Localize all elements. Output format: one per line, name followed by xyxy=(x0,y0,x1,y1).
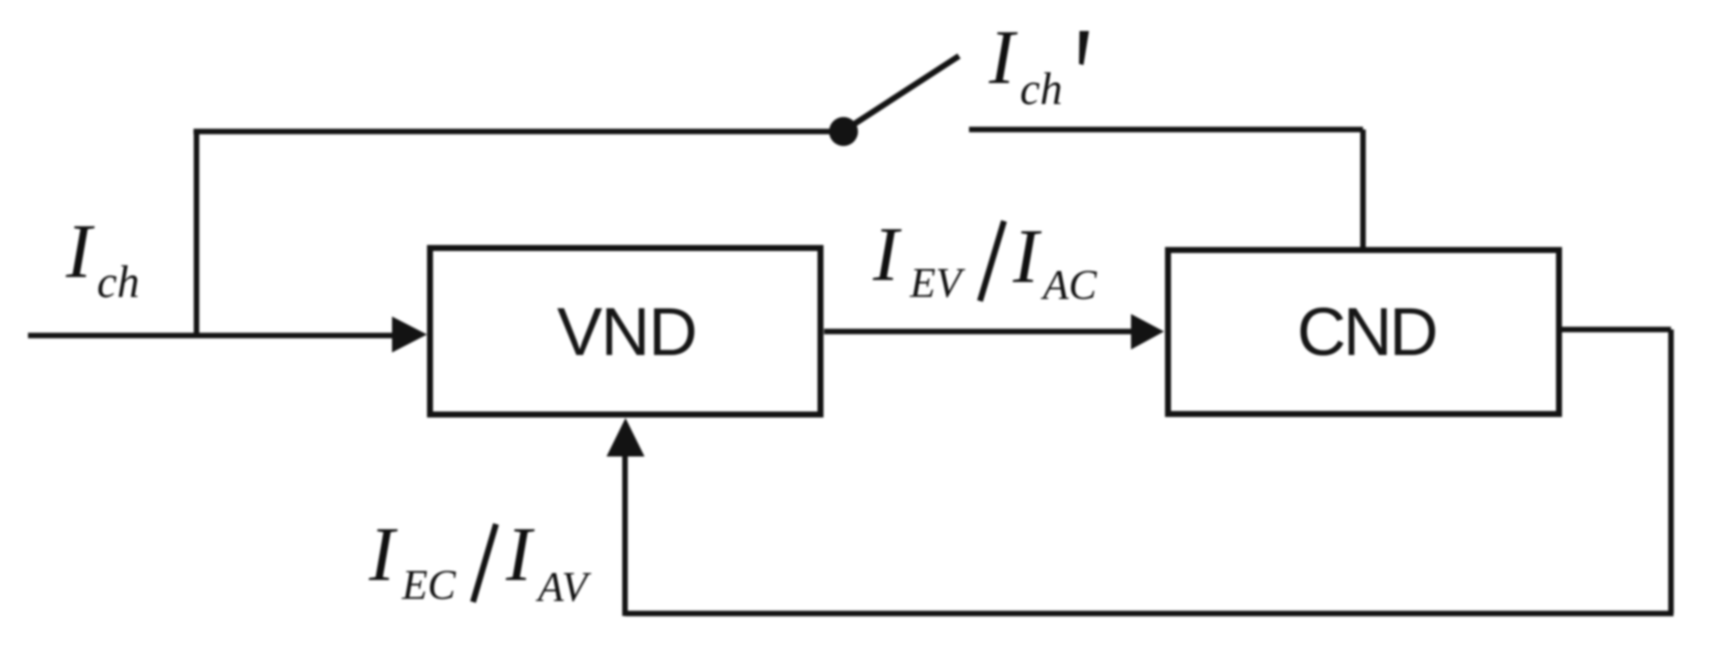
wire CND output right xyxy=(1562,327,1671,333)
arrowhead into VND left xyxy=(392,317,427,353)
svg-text:AC: AC xyxy=(1040,263,1098,309)
svg-text:EC: EC xyxy=(401,563,457,609)
svg-text:EV: EV xyxy=(909,261,966,307)
svg-text:ch: ch xyxy=(1020,64,1062,114)
block CND xyxy=(1168,250,1559,414)
wire right branch vertical into CND top xyxy=(1360,130,1366,249)
wire VND to CND xyxy=(824,329,1136,335)
arrowhead into VND bottom xyxy=(607,418,645,457)
wire feedback bottom horizontal xyxy=(625,611,1674,617)
svg-text:AV: AV xyxy=(535,565,592,611)
svg-text:I: I xyxy=(872,211,902,297)
switch pivot dot xyxy=(829,117,858,146)
wire input horizontal Ich xyxy=(28,333,397,339)
svg-text:CND: CND xyxy=(1297,294,1435,370)
svg-text:I: I xyxy=(65,208,95,294)
svg-text:I: I xyxy=(988,14,1018,100)
svg-text:ch: ch xyxy=(97,257,139,307)
svg-text:I: I xyxy=(368,511,398,597)
switch blade diagonal xyxy=(845,56,959,130)
wire top horizontal left segment xyxy=(194,129,844,135)
block VND xyxy=(430,248,821,415)
wire left branch vertical xyxy=(194,132,200,336)
svg-text:I: I xyxy=(1012,213,1042,299)
svg-text:I: I xyxy=(505,511,535,597)
wire feedback right vertical xyxy=(1668,330,1674,614)
wire feedback left vertical up to VND xyxy=(622,453,628,616)
svg-text:VND: VND xyxy=(557,294,696,370)
wire top horizontal right segment xyxy=(969,127,1363,133)
arrowhead into CND left xyxy=(1131,314,1164,350)
